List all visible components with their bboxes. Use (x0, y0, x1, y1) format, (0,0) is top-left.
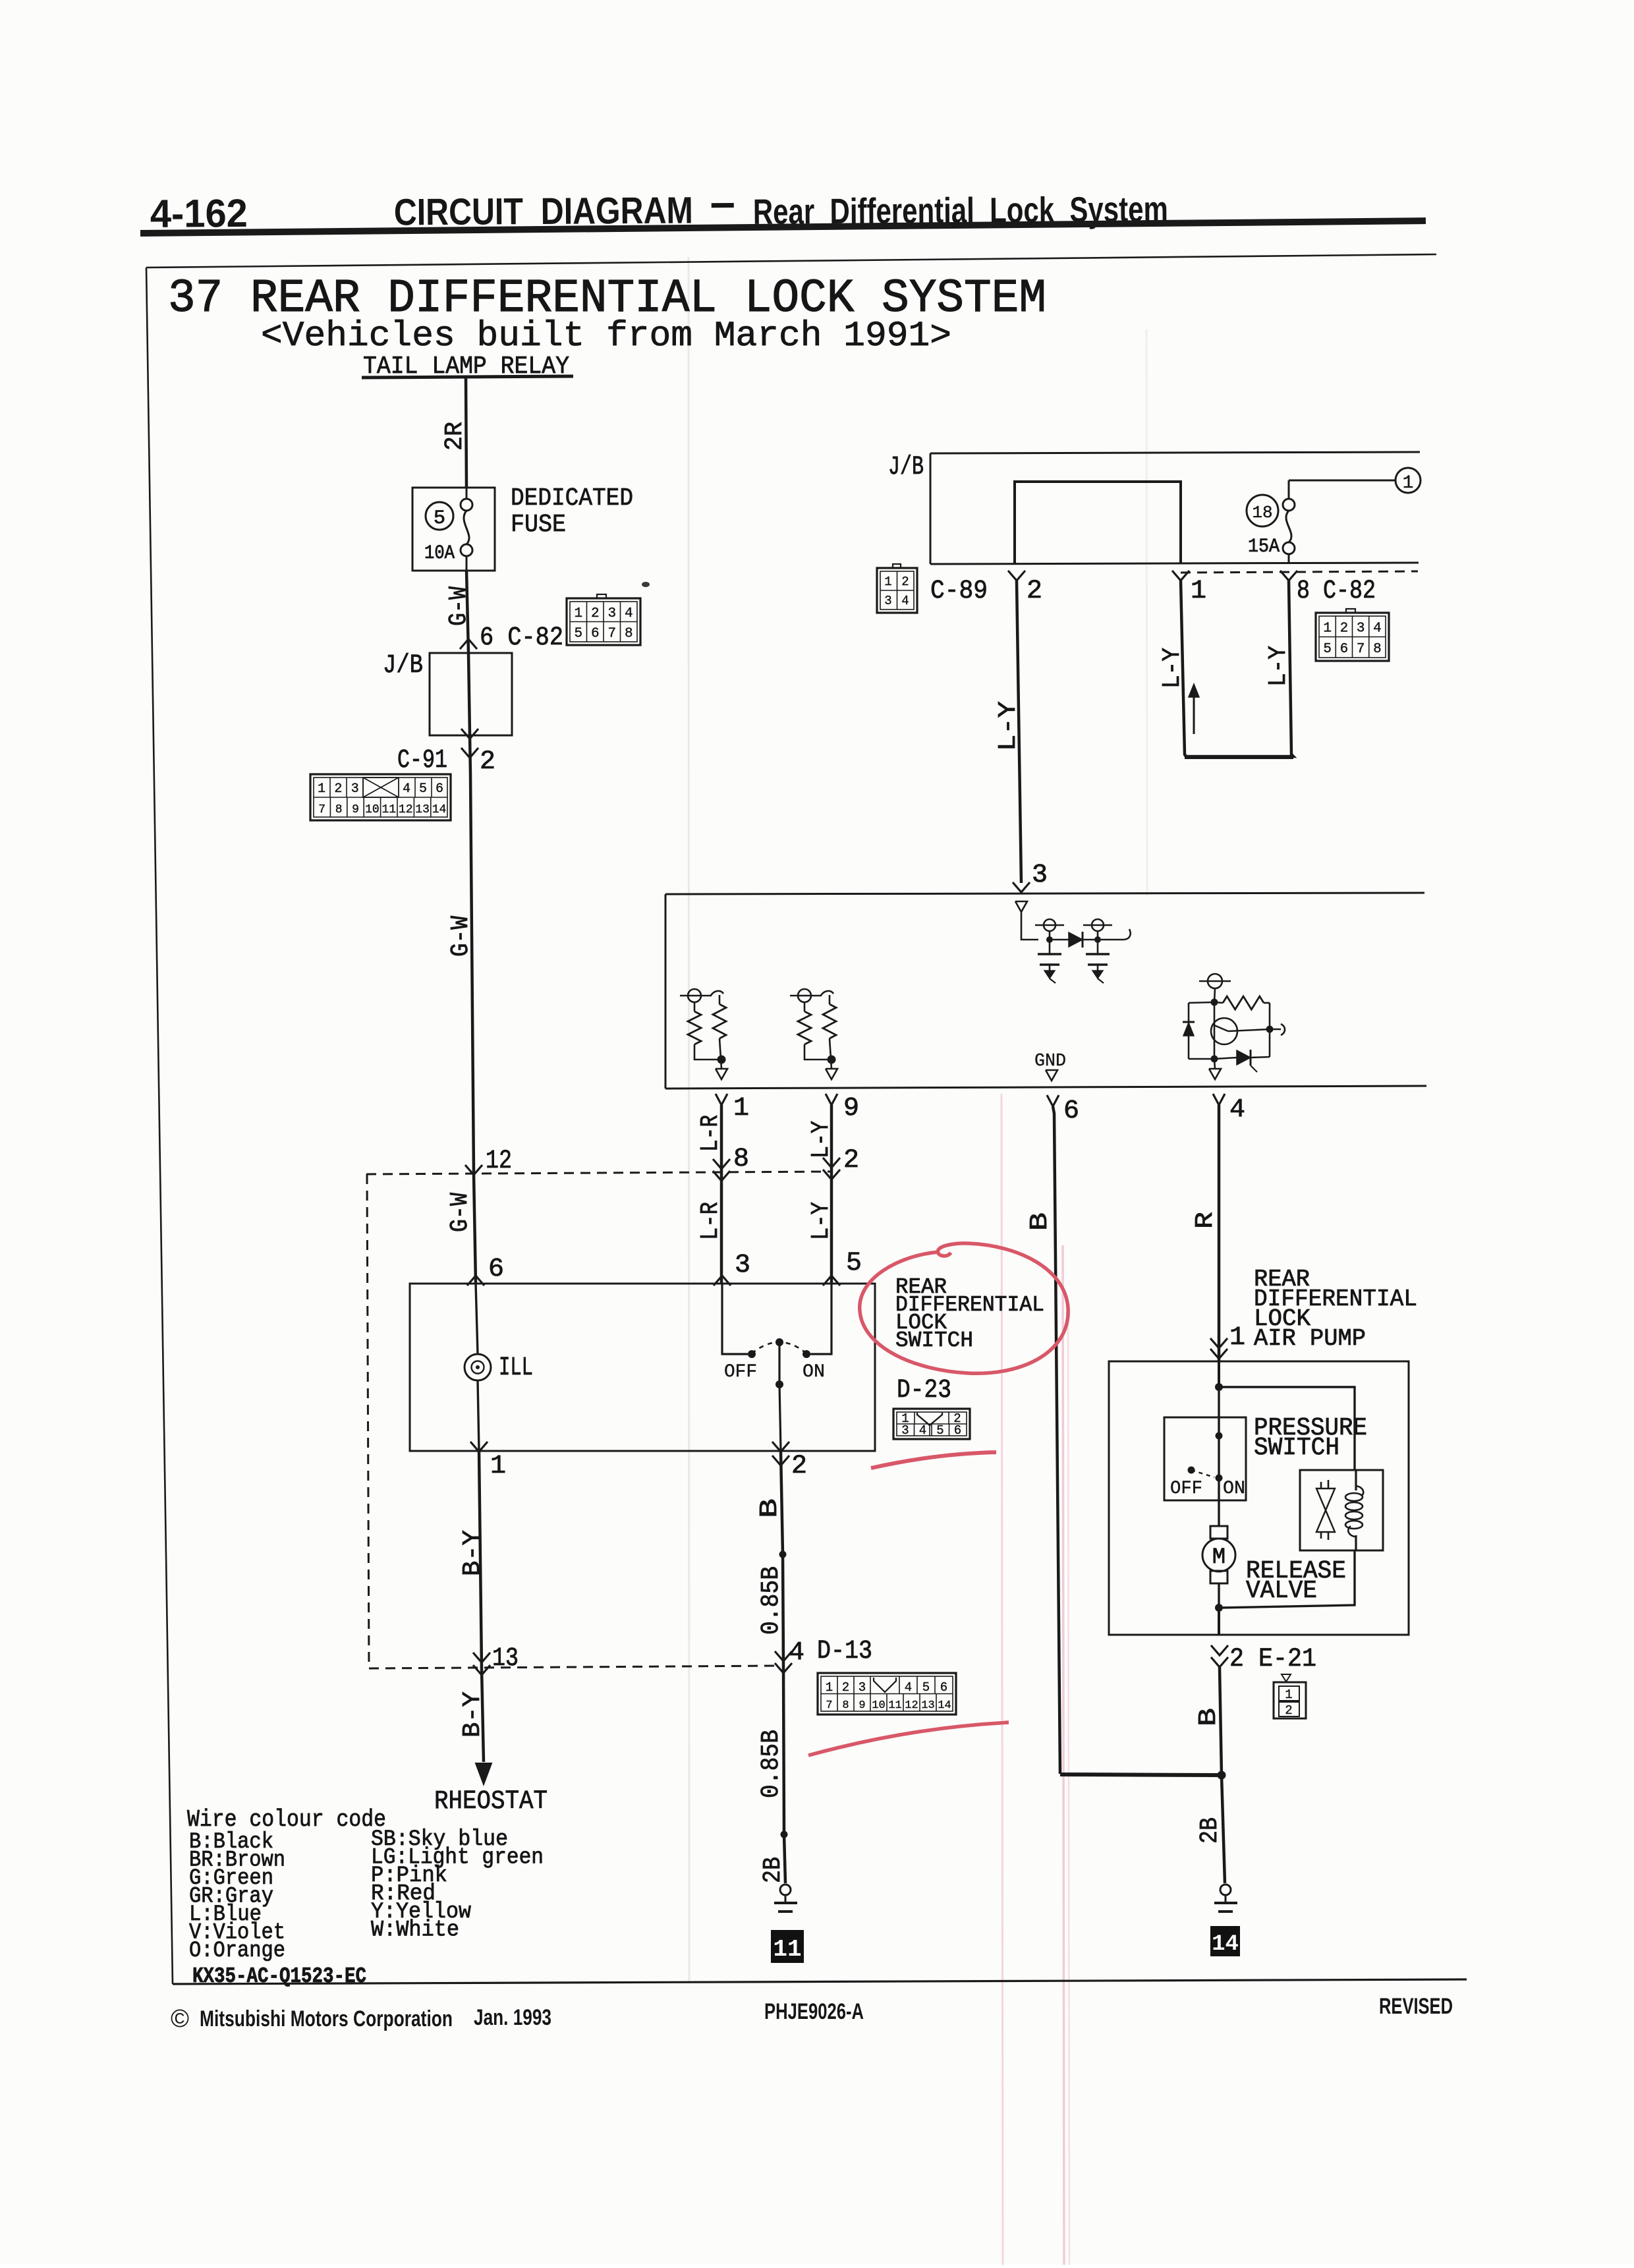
wire 2B to ground 11 (784, 1834, 785, 1883)
svg-text:L-Y: L-Y (807, 1121, 835, 1158)
svg-text:M: M (1212, 1545, 1225, 1570)
svg-text:2B: 2B (759, 1857, 787, 1883)
switch contact wire from pin 5 (810, 1284, 831, 1354)
air pump box (1109, 1361, 1409, 1635)
arrow air pump pin 2 (1211, 1645, 1228, 1655)
svg-text:©: © (171, 2005, 189, 2033)
arrow out of switch pin 2 (772, 1442, 789, 1452)
valve bottom wire (1219, 1550, 1355, 1608)
svg-text:8: 8 (335, 803, 343, 816)
svg-text:1: 1 (884, 575, 891, 589)
svg-text:2: 2 (1340, 621, 1349, 636)
dashed line pin1 to pin8 (1181, 571, 1418, 573)
svg-text:3: 3 (859, 1680, 866, 1695)
dashed wiring box (366, 1172, 831, 1174)
svg-text:3: 3 (351, 781, 359, 797)
internal pull-up resistors pair A (680, 995, 710, 996)
control unit pin 6 GND (1047, 1095, 1059, 1106)
pressure switch contacts (1188, 1467, 1195, 1474)
svg-text:13: 13 (921, 1699, 934, 1712)
svg-text:4: 4 (905, 1680, 912, 1695)
svg-text:15A: 15A (1248, 536, 1280, 558)
svg-text:L-Y: L-Y (807, 1202, 835, 1240)
svg-text:12: 12 (399, 803, 413, 816)
svg-text:1: 1 (1285, 1687, 1292, 1702)
svg-text:W:White: W:White (371, 1918, 459, 1943)
svg-text:1: 1 (1403, 473, 1414, 494)
control unit pin 3 input (1015, 901, 1027, 912)
arrow to rheostat (476, 1763, 492, 1784)
GND terminal triangle (1046, 1070, 1057, 1081)
wire from motor to junction (1218, 1583, 1220, 1608)
fuse number circled 5 (426, 502, 453, 530)
svg-text:Jan. 1993: Jan. 1993 (474, 2005, 551, 2030)
wire B-Y to rheostat (482, 1668, 484, 1762)
release valve box (1300, 1470, 1383, 1550)
svg-text:2: 2 (591, 606, 600, 621)
internal capacitor 1 (1049, 940, 1051, 953)
dedicated fuse box (412, 488, 495, 571)
svg-text:8: 8 (625, 626, 633, 641)
ground symbol 11 (780, 1885, 791, 1895)
svg-text:VALVE: VALVE (1246, 1577, 1317, 1605)
svg-text:14: 14 (432, 803, 447, 816)
wire G-W to switch (474, 1174, 476, 1284)
fuse symbol 15A (1283, 499, 1295, 511)
scan artifact faint vertical line (689, 257, 689, 1983)
svg-text:OFF: OFF (724, 1362, 757, 1382)
svg-text:REVISED: REVISED (1379, 1994, 1453, 2019)
wire B horizontal to ground junction (1060, 1774, 1222, 1775)
svg-text:3: 3 (884, 594, 891, 608)
connector D-23 pin grid (893, 1409, 970, 1439)
connector C-82 pin grid (567, 598, 640, 645)
svg-text:11: 11 (888, 1699, 901, 1712)
svg-text:6: 6 (591, 626, 600, 641)
svg-text:14: 14 (938, 1699, 951, 1712)
svg-text:2: 2 (901, 575, 909, 589)
red circle annotation rear differential lock switch (860, 1243, 1068, 1373)
internal terminal circle 2 (1083, 924, 1112, 926)
svg-text:J/B: J/B (383, 651, 423, 681)
internal wire with hook (1101, 939, 1124, 941)
svg-text:6: 6 (954, 1423, 961, 1438)
svg-text:KX35-AC-Q1523-EC: KX35-AC-Q1523-EC (192, 1964, 366, 1989)
svg-text:PHJE9026-A: PHJE9026-A (764, 1999, 864, 2024)
wire G-W below fuse (466, 571, 468, 653)
transistor symbol (1211, 1018, 1237, 1044)
arrow at J/B bottom (461, 729, 478, 739)
air pump internal branch wire (1219, 1387, 1355, 1470)
junction block J/B (430, 653, 512, 735)
svg-text:8 C-82: 8 C-82 (1297, 577, 1376, 606)
scan artifact pink vertical line (1001, 1094, 1003, 2265)
svg-text:1: 1 (1229, 1323, 1245, 1353)
wire through pressure switch (1218, 1387, 1220, 1436)
header dash (712, 203, 734, 208)
control unit pin 4 (1213, 1094, 1225, 1105)
svg-text:2B: 2B (1196, 1817, 1224, 1844)
arrow into switch pin 5 (823, 1276, 840, 1286)
internal zener diode 2 (1237, 1050, 1251, 1065)
wire to C-91 (470, 735, 470, 774)
control unit box (665, 893, 1424, 894)
svg-text:L-R: L-R (696, 1202, 725, 1240)
svg-text:11: 11 (773, 1936, 801, 1963)
arrow C-89 pin 2 (1008, 571, 1025, 581)
svg-text:0.85B: 0.85B (757, 1730, 785, 1798)
scan artifact pink vertical line 3 (1068, 1311, 1069, 2265)
svg-text:5: 5 (434, 507, 445, 530)
ground reference box 14 (1210, 1926, 1240, 1956)
node 12 arrow (465, 1165, 482, 1175)
connector C-89 pin grid (877, 568, 917, 613)
svg-text:G-W: G-W (446, 1193, 474, 1232)
svg-text:10A: 10A (424, 542, 455, 565)
red underline annotation D-23 (871, 1452, 996, 1468)
arrow out of switch pin 1 (470, 1442, 488, 1452)
circled terminal 1 (1395, 468, 1421, 493)
connector E-21 (1282, 1674, 1291, 1682)
svg-text:L-Y: L-Y (1158, 648, 1187, 689)
svg-text:6: 6 (436, 781, 443, 797)
illumination lamp ILL (465, 1354, 491, 1380)
svg-text:3: 3 (735, 1251, 750, 1280)
svg-text:5: 5 (574, 626, 582, 641)
svg-text:SWITCH: SWITCH (1254, 1434, 1339, 1462)
svg-text:1: 1 (1191, 577, 1206, 606)
wire L-Y loop pin 1 to pin 8 (1181, 581, 1293, 756)
svg-text:2: 2 (334, 781, 342, 797)
arrow into switch pin 6 (467, 1276, 484, 1286)
svg-text:<Vehicles built from March 199: <Vehicles built from March 1991> (261, 316, 951, 356)
svg-text:4: 4 (1373, 621, 1382, 636)
internal terminal circle 1 (1035, 924, 1064, 926)
svg-text:O:Orange: O:Orange (189, 1939, 285, 1964)
svg-text:7: 7 (1357, 642, 1365, 657)
svg-text:D-23: D-23 (897, 1376, 951, 1405)
wire R from pin 4 (1218, 1105, 1221, 1361)
svg-text:2R: 2R (441, 422, 469, 451)
svg-text:B: B (1026, 1212, 1054, 1231)
svg-text:4: 4 (901, 594, 909, 608)
node 13 arrows (473, 1653, 490, 1662)
wire out of air pump (1218, 1608, 1220, 1635)
svg-text:6 C-82: 6 C-82 (480, 623, 563, 653)
svg-text:7: 7 (607, 626, 616, 641)
svg-text:R: R (1191, 1212, 1220, 1229)
wire 2B to ground 14 (1222, 1775, 1225, 1883)
svg-text:ON: ON (803, 1362, 825, 1382)
svg-text:3: 3 (607, 606, 616, 621)
svg-text:10: 10 (872, 1699, 885, 1712)
svg-text:10: 10 (365, 803, 380, 816)
svg-text:4: 4 (1229, 1095, 1245, 1125)
svg-text:GND: GND (1034, 1052, 1066, 1071)
internal base resistor (1214, 1002, 1223, 1003)
air pump motor (1210, 1526, 1227, 1539)
node 8 arrows (713, 1159, 730, 1169)
svg-text:RHEOSTAT: RHEOSTAT (434, 1787, 548, 1817)
svg-text:B-Y: B-Y (459, 1530, 487, 1576)
junction block J/B right box (930, 452, 1420, 453)
svg-text:1: 1 (826, 1680, 833, 1695)
arrow pin 1 (1172, 571, 1189, 581)
svg-text:7: 7 (318, 803, 325, 816)
svg-text:11: 11 (381, 803, 396, 816)
control unit pin 9 (826, 1094, 837, 1105)
internal output transistor circuit (1199, 980, 1231, 982)
svg-text:AIR PUMP: AIR PUMP (1254, 1325, 1366, 1352)
svg-text:4: 4 (625, 606, 633, 621)
svg-text:7: 7 (826, 1699, 832, 1712)
fuse number circled 18 (1247, 495, 1278, 526)
svg-text:6: 6 (488, 1255, 504, 1284)
svg-text:4: 4 (789, 1638, 804, 1668)
wire B from pin 6 (1053, 1106, 1060, 1774)
svg-text:5: 5 (936, 1423, 944, 1438)
internal capacitor 2 (1097, 940, 1099, 953)
svg-text:8: 8 (842, 1699, 849, 1712)
svg-text:ON: ON (1223, 1479, 1245, 1499)
svg-text:1: 1 (490, 1452, 506, 1481)
svg-text:9: 9 (859, 1699, 865, 1712)
svg-text:12: 12 (905, 1699, 918, 1712)
svg-text:SWITCH: SWITCH (895, 1328, 973, 1353)
svg-text:6: 6 (1340, 642, 1349, 657)
wire B-Y (479, 1452, 482, 1668)
wire into air pump (1218, 1361, 1220, 1387)
svg-text:1: 1 (1323, 621, 1332, 636)
diagram frame border (146, 254, 1436, 268)
svg-text:L-Y: L-Y (994, 701, 1023, 751)
internal zener diode (1183, 1023, 1194, 1036)
svg-text:C-91: C-91 (397, 746, 447, 776)
valve symbol (1320, 1482, 1322, 1488)
svg-text:2 E-21: 2 E-21 (1229, 1645, 1316, 1674)
scan artifact faint vertical line 2 (1146, 329, 1147, 896)
svg-text:1: 1 (733, 1094, 749, 1123)
svg-text:Mitsubishi Motors Corporation: Mitsubishi Motors Corporation (200, 2006, 453, 2031)
svg-text:8: 8 (733, 1145, 749, 1174)
wire L-Y from pin 9 (830, 1105, 833, 1284)
svg-text:5: 5 (1323, 642, 1332, 657)
svg-text:DEDICATED: DEDICATED (511, 484, 633, 513)
svg-text:Wire colour code: Wire colour code (187, 1806, 386, 1833)
svg-text:9: 9 (352, 803, 359, 816)
svg-text:2: 2 (791, 1452, 807, 1481)
wire L-R from pin 1 (720, 1105, 723, 1284)
wire through lamp (476, 1284, 478, 1354)
wire B below E-21 (1220, 1667, 1222, 1775)
fuse 18 wire to battery (1288, 480, 1290, 499)
header rule (140, 221, 1426, 233)
rear differential lock switch box (410, 1284, 875, 1451)
svg-text:18: 18 (1252, 503, 1272, 523)
current direction arrow (1193, 689, 1195, 734)
svg-text:3: 3 (901, 1423, 909, 1438)
svg-text:J/B: J/B (888, 453, 924, 482)
ground reference box 11 (771, 1930, 804, 1963)
svg-text:2: 2 (1285, 1703, 1292, 1718)
svg-text:4: 4 (403, 781, 410, 797)
connector C-82 second pin grid (1316, 613, 1389, 661)
red swoosh annotation D-13 (808, 1722, 1009, 1755)
wire through junction block (468, 653, 470, 735)
wire L-Y from C-89 pin 2 (1017, 581, 1021, 883)
svg-text:FUSE: FUSE (511, 511, 566, 539)
valve solenoid coil (1345, 1493, 1363, 1501)
svg-text:3: 3 (1357, 621, 1365, 636)
connector D-13 pin grid (818, 1673, 956, 1715)
arrow into switch pin 3 (714, 1276, 731, 1286)
svg-text:G-W: G-W (445, 586, 473, 626)
node 2 arrows (823, 1158, 840, 1168)
svg-text:2: 2 (480, 747, 495, 777)
ground symbol 14 (1220, 1885, 1231, 1895)
svg-text:2: 2 (1027, 577, 1042, 606)
svg-text:3: 3 (1032, 861, 1048, 890)
node 4 arrows (775, 1651, 792, 1661)
svg-text:L-Y: L-Y (1264, 646, 1293, 687)
svg-text:9: 9 (843, 1094, 859, 1123)
svg-text:2: 2 (843, 1146, 859, 1176)
wire 0.85B (783, 1554, 783, 1666)
svg-text:5: 5 (846, 1249, 862, 1278)
svg-text:B-Y: B-Y (459, 1691, 487, 1738)
switch pole wire (778, 1342, 780, 1384)
svg-text:4: 4 (919, 1423, 926, 1438)
output terminal triangle (1214, 1059, 1215, 1069)
connector C-91 pin grid (310, 774, 451, 820)
internal output hook (1270, 1029, 1281, 1031)
internal diode (1053, 939, 1069, 941)
connector crossing arrow at pin 6 (460, 639, 477, 649)
svg-text:0.85B: 0.85B (757, 1566, 785, 1635)
wire G-W long run (470, 774, 474, 1174)
pressure switch box (1164, 1417, 1246, 1500)
wire 0.85B lower (783, 1666, 784, 1834)
svg-text:12: 12 (486, 1147, 512, 1176)
svg-text:13: 13 (415, 803, 430, 816)
svg-text:1: 1 (318, 781, 325, 797)
svg-text:L-R: L-R (696, 1115, 725, 1152)
svg-text:13: 13 (492, 1644, 519, 1674)
arrow air pump pin 1 (1210, 1338, 1227, 1348)
svg-text:D-13: D-13 (817, 1637, 872, 1666)
switch contact wire from pin 3 (722, 1284, 748, 1354)
wire to motor (1218, 1478, 1220, 1526)
switch pole dashed arc (752, 1342, 806, 1353)
arrow pin 8 (1280, 571, 1297, 581)
svg-text:8: 8 (1373, 642, 1382, 657)
wire B from switch (781, 1452, 783, 1554)
svg-text:G-W: G-W (447, 916, 475, 957)
svg-text:5: 5 (419, 781, 427, 797)
svg-text:2: 2 (842, 1680, 849, 1695)
svg-text:B: B (756, 1498, 784, 1518)
svg-text:14: 14 (1212, 1932, 1239, 1957)
svg-text:5: 5 (922, 1680, 930, 1695)
wire 2R from tail lamp relay (466, 378, 466, 488)
svg-text:1: 1 (574, 606, 582, 621)
svg-text:C-89: C-89 (930, 577, 988, 606)
svg-text:B: B (1195, 1708, 1223, 1726)
junction block internal bracket (1015, 482, 1181, 564)
svg-text:6: 6 (1063, 1096, 1079, 1126)
scan artifact pink vertical line 2 (1063, 1245, 1064, 2265)
arrow into control unit pin 3 (1013, 882, 1030, 892)
svg-text:6: 6 (940, 1680, 947, 1695)
scan ink blob artifact (642, 582, 650, 587)
internal pull-up resistors pair B (790, 995, 820, 996)
fuse symbol 10A (466, 488, 468, 499)
control unit pin 1 (716, 1094, 727, 1105)
svg-text:ILL: ILL (499, 1353, 533, 1383)
svg-text:OFF: OFF (1170, 1479, 1202, 1499)
